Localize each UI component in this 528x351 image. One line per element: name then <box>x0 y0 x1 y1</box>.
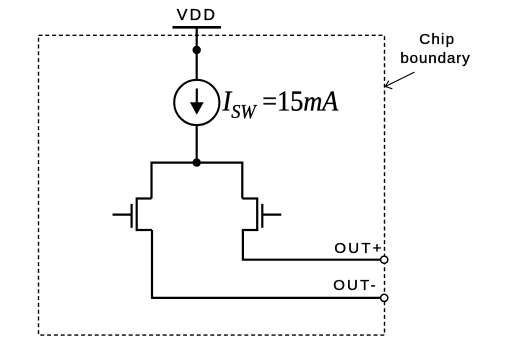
svg-text:OUT+: OUT+ <box>334 240 383 257</box>
label OUT+ <box>334 240 383 257</box>
wire tail rail <box>152 163 243 199</box>
terminal OUT+ circle <box>381 256 388 263</box>
svg-text:boundary: boundary <box>400 50 470 67</box>
value label Isw = 15mA <box>222 86 339 123</box>
current source U1 circle <box>174 80 219 125</box>
svg-text:VDD: VDD <box>177 7 217 24</box>
wire current source to tail node <box>196 125 198 163</box>
annotation Chip boundary text <box>400 31 470 67</box>
terminal OUT- circle <box>381 294 388 301</box>
power VDD label <box>177 7 217 24</box>
svg-text:OUT-: OUT- <box>333 277 378 294</box>
transistor M2 (right) <box>242 197 281 231</box>
label OUT- <box>333 277 378 294</box>
junction dot tail node <box>193 158 201 166</box>
annotation arrow to boundary <box>385 72 414 89</box>
chip boundary (dashed box) <box>39 35 385 335</box>
power VDD bar <box>173 26 222 29</box>
svg-text:Chip: Chip <box>419 31 455 48</box>
transistor M1 (left) <box>113 197 153 231</box>
wire M2 drain to OUT+ <box>243 230 381 260</box>
current source arrow <box>190 89 204 115</box>
junction dot on VDD wire <box>193 46 201 54</box>
wire VDD to current source <box>196 27 198 80</box>
wire M1 drain to OUT- <box>152 230 381 298</box>
